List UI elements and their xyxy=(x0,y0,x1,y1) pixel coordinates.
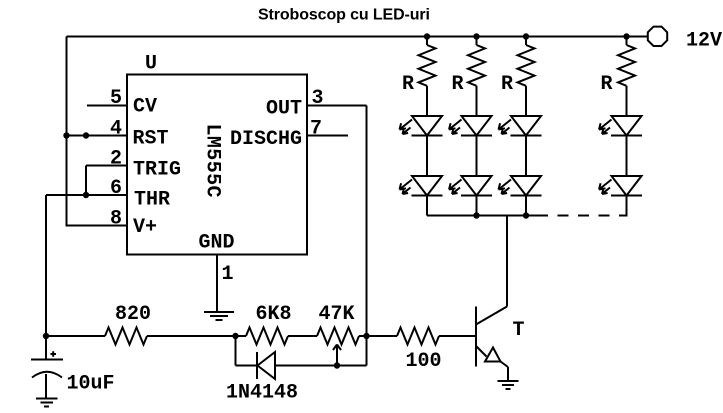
node: junction RST mid xyxy=(83,132,89,138)
wire: OUT vertical down xyxy=(366,106,368,337)
node: rail junction col3 xyxy=(523,33,529,39)
capacitor plus sign xyxy=(51,351,57,357)
node: junction rail/RST xyxy=(63,132,69,138)
svg-text:4: 4 xyxy=(110,118,122,141)
wire resistor to LED1 xyxy=(426,86,428,116)
LED column 1 xyxy=(400,37,443,216)
node: bottom rail col3 xyxy=(523,212,529,218)
12V supply terminal xyxy=(648,27,667,46)
node: rail junction col2 xyxy=(473,33,479,39)
node: timing node junction xyxy=(43,333,49,339)
svg-text:RST: RST xyxy=(133,127,169,150)
svg-text:Stroboscop cu LED-uri: Stroboscop cu LED-uri xyxy=(258,7,430,24)
resistor 100 xyxy=(397,328,439,345)
svg-text:47K: 47K xyxy=(319,303,355,326)
svg-text:TRIG: TRIG xyxy=(133,159,181,182)
wire: THR left vertical to timing node xyxy=(45,195,47,336)
svg-text:LM555C: LM555C xyxy=(201,124,224,198)
wiper arrow of 47K xyxy=(333,345,341,366)
wire: diode rail right xyxy=(275,365,367,367)
wire: pin 8 V+ connection xyxy=(66,225,128,227)
svg-text:R: R xyxy=(501,73,513,96)
LED D12 xyxy=(412,176,442,196)
svg-text:GND: GND xyxy=(199,232,235,255)
svg-text:10uF: 10uF xyxy=(67,373,115,396)
resistor 47K potentiometer xyxy=(317,328,359,345)
wire: diode rail up to OUT node xyxy=(366,336,368,366)
wire rail to resistor xyxy=(426,37,428,46)
svg-text:OUT: OUT xyxy=(266,98,302,121)
svg-text:R: R xyxy=(601,73,613,96)
LED D11 xyxy=(412,116,442,136)
node: wiper junction xyxy=(334,362,340,368)
wire LED2 to bottom rail xyxy=(426,196,428,216)
wire: collector vertical xyxy=(506,216,508,307)
node: bottom rail col2 xyxy=(473,212,479,218)
node: OUT/feedback junction xyxy=(363,333,369,339)
wire: 6K8 to 47K xyxy=(288,335,317,337)
wire: LED bottom rail solid xyxy=(427,215,548,217)
wire: pin 6 THR stub xyxy=(46,194,127,196)
wire: cap to ground xyxy=(45,374,47,398)
resistor 820 xyxy=(105,328,147,345)
svg-text:THR: THR xyxy=(134,189,170,212)
wire: pin 4 RST stub xyxy=(67,135,128,137)
svg-text:R: R xyxy=(402,73,414,96)
wire LED1 to LED2 xyxy=(426,136,428,177)
svg-text:DISCHG: DISCHG xyxy=(230,128,302,151)
node: junction THR/TRIG xyxy=(83,192,89,198)
wire: top 12V rail xyxy=(67,36,649,38)
svg-text:100: 100 xyxy=(406,350,442,373)
capacitor top plate xyxy=(31,359,63,361)
capacitor bottom plate arc xyxy=(32,372,62,378)
diode 1N4148 xyxy=(257,352,275,379)
svg-text:2: 2 xyxy=(110,148,122,171)
wire: pin 1 GND stub xyxy=(216,255,218,312)
ground: IC pin 1 xyxy=(204,312,234,320)
svg-text:12V: 12V xyxy=(686,30,722,53)
wire: 100 to base xyxy=(439,335,476,337)
LED column 4 xyxy=(599,37,642,216)
wire: TRIG to THR vertical xyxy=(85,166,87,196)
wire: pin 7 DISCHG stub xyxy=(307,135,348,137)
node: diode branch junction xyxy=(232,333,238,339)
LED column 2 xyxy=(449,37,492,216)
resistor 6K8 xyxy=(246,328,288,345)
LED column 3 xyxy=(499,37,542,216)
wire: 820 to 6K8 xyxy=(147,335,246,337)
svg-text:1N4148: 1N4148 xyxy=(226,382,298,405)
capacitor C1 10uF: wire xyxy=(45,336,47,359)
wire: diode rail left xyxy=(236,365,258,367)
svg-text:T: T xyxy=(513,319,525,342)
svg-text:R: R xyxy=(452,73,464,96)
wire: main bottom row xyxy=(46,335,105,337)
ground: emitter xyxy=(498,381,519,389)
node: rail junction col1 xyxy=(424,33,430,39)
svg-text:6K8: 6K8 xyxy=(256,303,292,326)
wire: pin 3 OUT stub xyxy=(307,105,367,107)
wire: pin 2 TRIG stub xyxy=(86,165,127,167)
wire: LED bottom rail dashed xyxy=(548,215,628,217)
svg-text:820: 820 xyxy=(115,303,151,326)
svg-text:3: 3 xyxy=(312,87,324,110)
svg-text:1: 1 xyxy=(222,263,234,286)
wire: diode branch vertical left xyxy=(235,336,237,366)
svg-text:7: 7 xyxy=(310,118,322,141)
node: rail junction col4 xyxy=(623,33,629,39)
IC U1 LM555C timer box xyxy=(127,75,307,255)
ground: capacitor xyxy=(36,399,58,407)
svg-text:5: 5 xyxy=(110,87,122,110)
resistor R col1 xyxy=(419,45,436,86)
wire: left vertical rail (12V to V+) xyxy=(66,37,68,226)
svg-text:8: 8 xyxy=(110,208,122,231)
svg-text:V+: V+ xyxy=(133,216,157,239)
wire: 47K to OUT node xyxy=(359,335,397,337)
transistor T xyxy=(476,307,508,381)
svg-text:U: U xyxy=(145,53,157,76)
svg-text:6: 6 xyxy=(110,177,122,200)
wire: pin 5 CV stub xyxy=(87,105,127,107)
svg-text:CV: CV xyxy=(133,96,157,119)
